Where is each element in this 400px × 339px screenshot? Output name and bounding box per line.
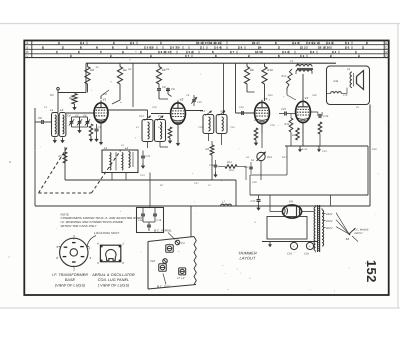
svg-text:S1: S1 <box>251 159 255 162</box>
svg-text:R13: R13 <box>267 156 272 159</box>
svg-text:V2: V2 <box>180 97 184 101</box>
svg-text:T1: T1 <box>290 60 294 63</box>
svg-text:B.C. OSC.: B.C. OSC. <box>157 285 171 289</box>
svg-text:C2: C2 <box>38 116 42 120</box>
svg-text:( VIEW OF LUGS): ( VIEW OF LUGS) <box>98 284 130 288</box>
svg-text:3: 3 <box>56 245 58 249</box>
svg-text:C1: C1 <box>50 93 54 97</box>
svg-text:R3: R3 <box>86 121 90 124</box>
svg-text:35 36 37 38 39 40: 35 36 37 38 39 40 <box>196 41 221 45</box>
svg-text:R12: R12 <box>282 75 287 78</box>
svg-text:2 8: 2 8 <box>238 46 243 50</box>
svg-text:R11: R11 <box>334 80 339 83</box>
svg-text:240V: 240V <box>325 213 333 216</box>
svg-text:2 6: 2 6 <box>345 46 350 50</box>
svg-text:C16: C16 <box>209 164 214 167</box>
svg-text:3 8 10 17: 3 8 10 17 <box>158 50 171 54</box>
svg-text:C23: C23 <box>281 108 286 111</box>
svg-text:L2: L2 <box>60 108 64 112</box>
svg-text:L10: L10 <box>343 94 348 97</box>
svg-text:C11: C11 <box>146 155 151 158</box>
svg-text:5 2: 5 2 <box>345 41 350 45</box>
svg-text:1 3: 1 3 <box>300 54 305 58</box>
svg-text:LOCATING SPOT: LOCATING SPOT <box>94 231 120 235</box>
svg-text:L7: L7 <box>222 201 226 204</box>
svg-text:200V: 200V <box>325 227 333 230</box>
svg-text:R14: R14 <box>285 123 290 126</box>
svg-text:I.F. TRANSFORMER: I.F. TRANSFORMER <box>52 273 88 277</box>
svg-text:C22: C22 <box>312 94 317 97</box>
svg-text:R9: R9 <box>250 68 254 72</box>
svg-text:V4: V4 <box>305 96 309 100</box>
svg-text:C3: C3 <box>103 93 107 96</box>
svg-text:+: + <box>293 244 295 248</box>
svg-text:WITHIN THE CANS ONLY: WITHIN THE CANS ONLY <box>61 224 98 228</box>
svg-text:3 1: 3 1 <box>200 46 205 50</box>
svg-text:R1: R1 <box>69 96 73 100</box>
svg-text:C8: C8 <box>162 86 166 89</box>
svg-text:C16: C16 <box>239 106 244 109</box>
svg-text:LT. LP: LT. LP <box>177 277 185 280</box>
svg-text:C25: C25 <box>287 253 292 256</box>
svg-text:C19: C19 <box>270 124 275 127</box>
svg-text:R18: R18 <box>372 148 377 151</box>
svg-text:152: 152 <box>364 260 379 283</box>
svg-text:R6: R6 <box>166 68 170 71</box>
svg-text:4: 4 <box>90 256 92 260</box>
svg-text:R10: R10 <box>268 94 273 97</box>
svg-text:C13: C13 <box>140 174 145 177</box>
svg-text:C26: C26 <box>304 253 309 256</box>
svg-text:V1: V1 <box>103 97 107 101</box>
svg-text:2 4: 2 4 <box>332 50 337 54</box>
svg-text:C12: C12 <box>198 126 203 129</box>
svg-text:S2: S2 <box>346 237 350 241</box>
svg-text:C20: C20 <box>252 181 257 184</box>
svg-text:(VIEW OF LUGS): (VIEW OF LUGS) <box>55 284 86 288</box>
svg-text:C17: C17 <box>194 182 199 185</box>
svg-text:C7: C7 <box>98 126 102 129</box>
svg-text:C12: C12 <box>139 115 144 118</box>
svg-text:+: + <box>309 244 311 248</box>
svg-text:R13: R13 <box>227 161 232 164</box>
svg-text:2 0 7 9: 2 0 7 9 <box>170 46 180 50</box>
svg-text:R7: R7 <box>160 184 164 187</box>
svg-text:INPUT: INPUT <box>355 232 364 235</box>
svg-text:C9: C9 <box>186 94 190 97</box>
svg-text:C4: C4 <box>67 115 71 118</box>
svg-text:C22: C22 <box>251 200 256 203</box>
svg-text:C14: C14 <box>200 110 205 113</box>
svg-text:R8: R8 <box>206 148 210 151</box>
svg-text:LAYOUT: LAYOUT <box>240 256 256 261</box>
svg-text:C9: C9 <box>171 88 175 91</box>
svg-text:C15: C15 <box>221 110 226 113</box>
svg-text:L4: L4 <box>125 147 129 150</box>
svg-text:.25: .25 <box>95 66 99 69</box>
svg-text:R17: R17 <box>282 156 287 159</box>
svg-text:16 18 20: 16 18 20 <box>318 46 330 50</box>
svg-text:C3: C3 <box>181 242 185 245</box>
svg-text:4 6: 4 6 <box>130 41 135 45</box>
svg-text:C10: C10 <box>152 106 157 109</box>
svg-text:L1: L1 <box>50 108 54 112</box>
svg-text:V5: V5 <box>289 200 293 204</box>
svg-text:C1: C1 <box>44 106 48 109</box>
svg-text:C21: C21 <box>244 166 249 169</box>
svg-text:V3: V3 <box>264 97 268 101</box>
svg-text:C13: C13 <box>158 115 163 118</box>
svg-text:COIL LUG PANEL: COIL LUG PANEL <box>98 278 129 282</box>
svg-text:L3: L3 <box>104 147 108 150</box>
svg-text:C24: C24 <box>324 115 329 118</box>
svg-text:9 8: 9 8 <box>310 50 315 54</box>
svg-text:2: 2 <box>121 261 124 265</box>
svg-text:C24: C24 <box>322 150 327 153</box>
svg-text:R2: R2 <box>90 68 94 72</box>
svg-text:5: 5 <box>73 234 75 238</box>
svg-text:24: 24 <box>258 46 262 50</box>
svg-text:4 2: 4 2 <box>80 41 85 45</box>
svg-text:220V: 220V <box>325 220 333 223</box>
svg-text:AERIAL & OSCILLATOR: AERIAL & OSCILLATOR <box>91 273 135 277</box>
svg-text:2: 2 <box>72 268 75 272</box>
svg-text:2 7: 2 7 <box>230 50 235 54</box>
svg-text:6.3V: 6.3V <box>302 148 308 151</box>
svg-text:C10: C10 <box>150 260 156 263</box>
svg-text:1 7: 1 7 <box>185 54 190 58</box>
svg-text:R4: R4 <box>123 68 127 72</box>
svg-text:C30: C30 <box>197 101 202 104</box>
svg-text:R15: R15 <box>292 134 297 137</box>
svg-text:C15: C15 <box>230 126 235 129</box>
svg-text:R11: R11 <box>254 119 259 122</box>
svg-text:S: S <box>26 46 28 50</box>
svg-text:L8: L8 <box>347 68 350 71</box>
svg-text:1 5 6 8: 1 5 6 8 <box>144 46 154 50</box>
svg-text:R10: R10 <box>267 68 273 72</box>
svg-text:B.C. AERIAL: B.C. AERIAL <box>154 229 172 233</box>
svg-text:R4: R4 <box>128 68 132 71</box>
svg-text:BASE: BASE <box>65 278 76 282</box>
svg-text:C19: C19 <box>157 219 162 222</box>
svg-text:6: 6 <box>56 256 58 260</box>
svg-text:R16: R16 <box>229 169 234 172</box>
